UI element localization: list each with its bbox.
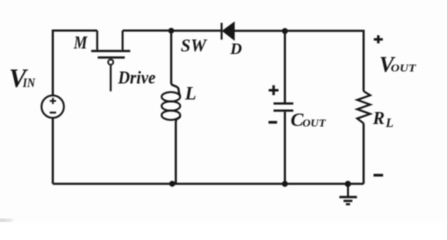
svg-text:L: L <box>184 85 196 105</box>
inductor L coil <box>162 92 181 120</box>
svg-text:IN: IN <box>22 76 36 90</box>
plus sign at V_OUT top <box>374 35 383 43</box>
svg-text:OUT: OUT <box>302 118 327 130</box>
plus sign at capacitor C_OUT top <box>269 85 279 95</box>
node capacitor-rail junction dot <box>282 181 288 187</box>
diode D <box>222 22 235 39</box>
wire inductor L bottom to ground rail <box>176 116 180 184</box>
wire V_IN bottom to ground rail <box>52 118 54 184</box>
ground <box>339 184 357 204</box>
transistor M (PMOS switch) <box>91 31 130 92</box>
node SW junction dot <box>168 28 174 34</box>
wire output node to top-right corner and down to resistor R_L <box>285 31 364 91</box>
svg-text:Drive: Drive <box>117 67 156 87</box>
wire node SW down to inductor L <box>171 31 180 97</box>
svg-text:OUT: OUT <box>391 63 417 74</box>
capacitor C_OUT plates <box>274 104 294 111</box>
wire transistor M drain to node SW <box>123 30 172 32</box>
wire bottom ground rail <box>53 183 364 185</box>
source V_IN circle <box>42 95 64 117</box>
wire node SW to diode D cathode <box>171 30 221 32</box>
node output junction dot <box>282 28 288 34</box>
resistor R_L zigzag <box>357 91 370 123</box>
wire top-left from V_IN up to transistor M source <box>53 31 97 96</box>
svg-text:D: D <box>229 40 242 58</box>
svg-text:SW: SW <box>181 36 207 56</box>
node ground junction dot <box>345 181 351 187</box>
svg-text:R: R <box>372 108 385 128</box>
wire output node down to capacitor C_OUT <box>284 31 286 103</box>
node inductor-rail junction dot <box>169 181 175 187</box>
minus sign at capacitor C_OUT bottom <box>269 121 278 124</box>
svg-text:M: M <box>73 33 88 53</box>
svg-text:L: L <box>385 116 394 130</box>
wire capacitor C_OUT bottom to ground rail <box>284 112 286 184</box>
minus sign at V_OUT bottom <box>374 174 384 177</box>
wire diode D anode to output node <box>234 30 285 32</box>
wire resistor R_L bottom to ground rail <box>363 123 365 184</box>
